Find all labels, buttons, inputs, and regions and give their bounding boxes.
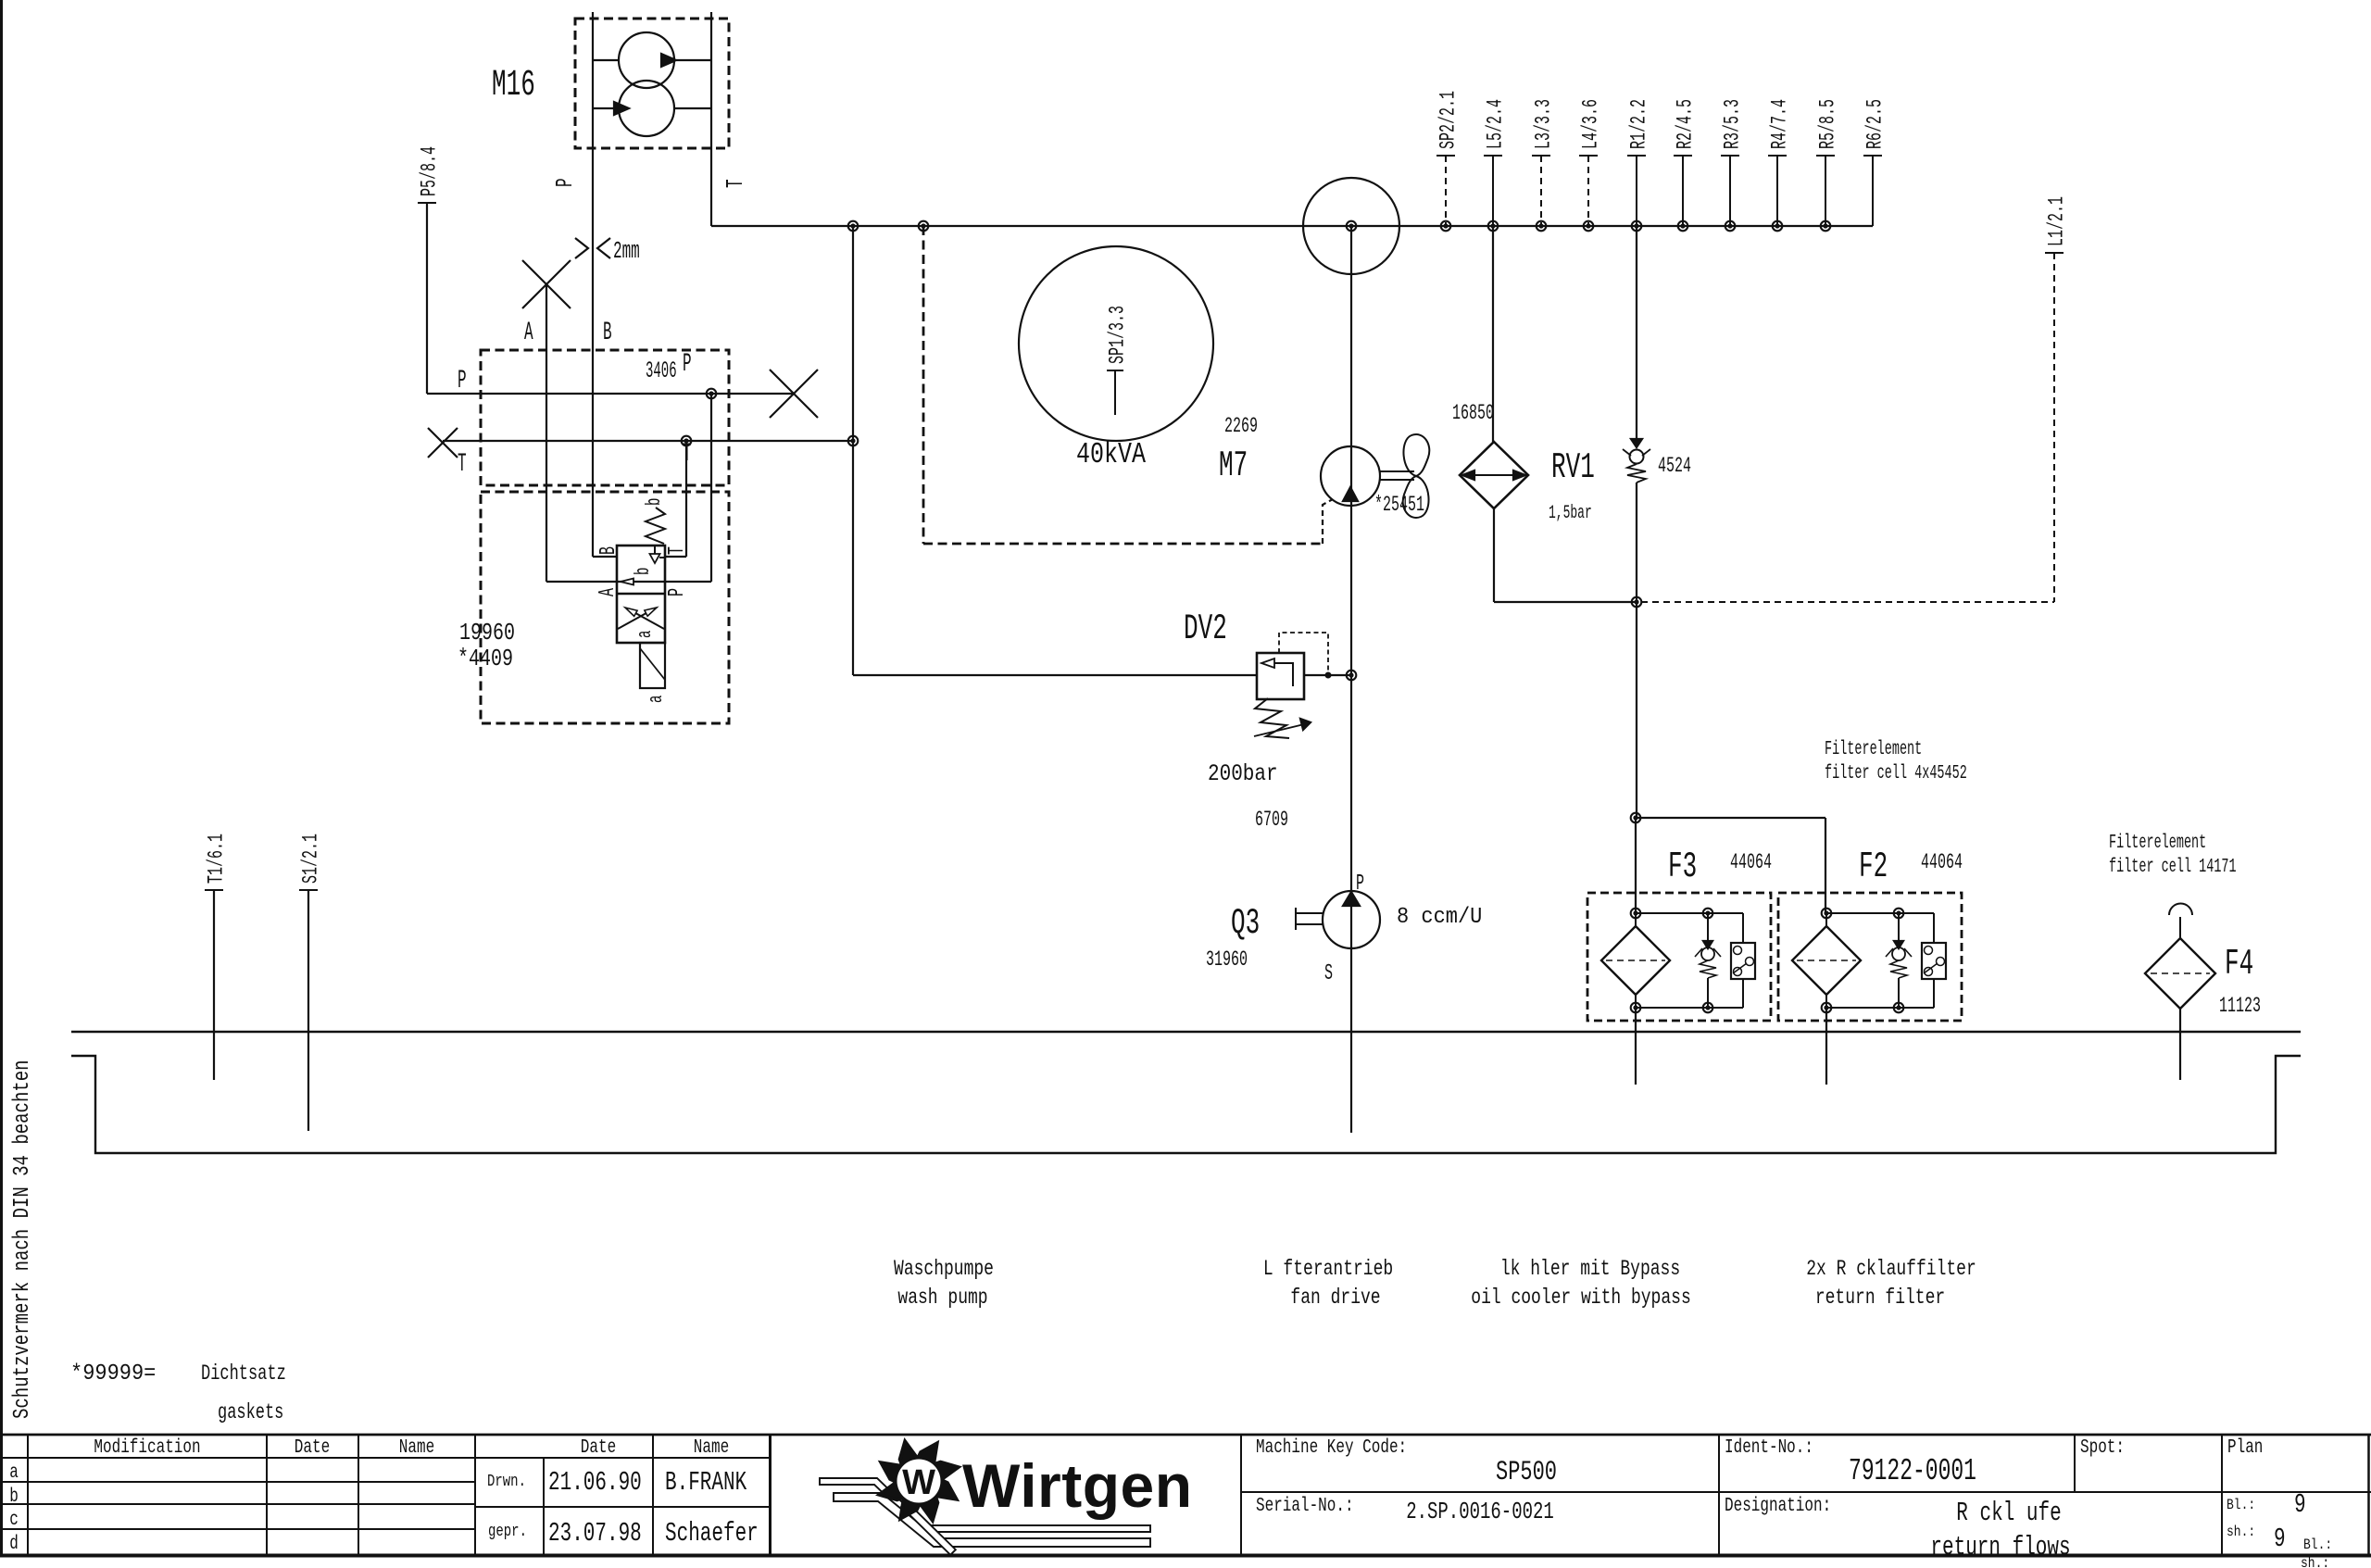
svg-text:T: T	[665, 546, 691, 555]
svg-text:b: b	[642, 498, 666, 506]
svg-text:B.FRANK: B.FRANK	[665, 1468, 746, 1498]
svg-text:c: c	[9, 1509, 19, 1531]
svg-text:M7: M7	[1219, 445, 1248, 486]
svg-text:Dichtsatz: Dichtsatz	[201, 1362, 286, 1386]
svg-text:a: a	[633, 631, 657, 638]
svg-text:31960: 31960	[1206, 947, 1248, 972]
svg-text:44064: 44064	[1921, 850, 1963, 874]
svg-text:2269: 2269	[1224, 414, 1258, 438]
svg-text:F3: F3	[1668, 846, 1697, 887]
svg-text:P: P	[458, 366, 467, 395]
svg-text:200bar: 200bar	[1208, 760, 1278, 786]
svg-text:R4/7.4: R4/7.4	[1767, 99, 1791, 149]
svg-text:T: T	[458, 449, 467, 479]
svg-text:a: a	[9, 1461, 19, 1484]
svg-text:Filterelement: Filterelement	[1825, 738, 1922, 760]
svg-text:sh.:: sh.:	[2301, 1556, 2329, 1568]
svg-text:Drwn.: Drwn.	[487, 1471, 526, 1490]
svg-text:Date: Date	[295, 1436, 330, 1459]
svg-text:R1/2.2: R1/2.2	[1626, 99, 1650, 149]
svg-text:79122-0001: 79122-0001	[1849, 1453, 1976, 1488]
svg-text:Name: Name	[399, 1436, 434, 1459]
svg-text:a: a	[644, 696, 668, 703]
svg-text:sh.:: sh.:	[2227, 1524, 2255, 1540]
svg-text:9: 9	[2274, 1524, 2286, 1554]
svg-text:21.06.90: 21.06.90	[548, 1468, 642, 1498]
svg-text:Designation:: Designation:	[1725, 1495, 1831, 1517]
svg-text:Serial-No.:: Serial-No.:	[1256, 1495, 1354, 1517]
svg-text:*25451: *25451	[1374, 493, 1424, 517]
svg-text:Filterelement: Filterelement	[2109, 832, 2206, 854]
svg-text:Date: Date	[581, 1436, 616, 1459]
svg-text:Schaefer: Schaefer	[665, 1519, 759, 1549]
svg-text:Waschpumpe: Waschpumpe	[894, 1258, 994, 1282]
svg-text:filter cell 4x45452: filter cell 4x45452	[1825, 762, 1967, 784]
svg-text:return filter: return filter	[1815, 1286, 1945, 1311]
svg-text:R2/4.5: R2/4.5	[1673, 99, 1697, 149]
svg-text:Machine Key Code:: Machine Key Code:	[1256, 1436, 1407, 1459]
svg-text:RV1: RV1	[1551, 446, 1595, 488]
svg-text:F2: F2	[1859, 846, 1888, 887]
svg-text:*4409: *4409	[458, 646, 513, 672]
svg-text:23.07.98: 23.07.98	[548, 1519, 642, 1549]
svg-text:Schutzvermerk nach DIN 34 beac: Schutzvermerk nach DIN 34 beachten	[10, 1060, 35, 1419]
svg-text:S1/2.1: S1/2.1	[298, 834, 322, 884]
svg-text:A: A	[596, 588, 621, 596]
svg-text:B: B	[603, 318, 612, 347]
svg-text:9: 9	[2294, 1490, 2306, 1520]
svg-text:1,5bar: 1,5bar	[1549, 504, 1592, 525]
svg-text:2x R cklauffilter: 2x R cklauffilter	[1806, 1258, 1976, 1282]
svg-text:2mm: 2mm	[613, 239, 640, 266]
svg-text:R6/2.5: R6/2.5	[1863, 99, 1887, 149]
svg-text:Q3: Q3	[1231, 902, 1260, 944]
svg-text:lk hler mit Bypass: lk hler mit Bypass	[1500, 1258, 1680, 1282]
svg-text:T1/6.1: T1/6.1	[204, 834, 228, 884]
svg-text:SP2/2.1: SP2/2.1	[1436, 91, 1460, 149]
svg-text:b: b	[9, 1486, 19, 1508]
svg-text:fan drive: fan drive	[1290, 1286, 1380, 1311]
svg-text:Modification: Modification	[94, 1436, 200, 1459]
svg-text:Spot:: Spot:	[2080, 1436, 2125, 1459]
svg-text:40kVA: 40kVA	[1076, 439, 1146, 471]
svg-text:L1/2.1: L1/2.1	[2044, 196, 2068, 246]
svg-text:6709: 6709	[1255, 808, 1288, 832]
svg-text:19960: 19960	[459, 620, 515, 646]
svg-text:R5/8.5: R5/8.5	[1815, 99, 1839, 149]
svg-text:Bl.:: Bl.:	[2227, 1498, 2255, 1513]
svg-text:L3/3.3: L3/3.3	[1531, 99, 1555, 149]
svg-text:16850: 16850	[1452, 401, 1494, 425]
svg-text:*99999=: *99999=	[70, 1361, 156, 1386]
svg-text:DV2: DV2	[1184, 608, 1227, 649]
svg-text:P: P	[665, 588, 691, 596]
svg-text:P: P	[553, 178, 580, 187]
svg-text:L5/2.4: L5/2.4	[1483, 99, 1507, 149]
svg-text:T: T	[723, 179, 750, 188]
svg-text:b: b	[631, 568, 655, 575]
svg-text:3406: 3406	[646, 358, 677, 384]
svg-text:wash pump: wash pump	[897, 1286, 987, 1311]
svg-text:L4/3.6: L4/3.6	[1578, 99, 1602, 149]
svg-text:Ident-No.:: Ident-No.:	[1725, 1436, 1813, 1459]
svg-text:P5/8.4: P5/8.4	[417, 146, 441, 196]
svg-text:W: W	[902, 1463, 935, 1502]
svg-text:S: S	[1324, 961, 1333, 987]
svg-text:gepr.: gepr.	[488, 1521, 527, 1540]
svg-text:SP1/3.3: SP1/3.3	[1105, 306, 1129, 364]
svg-text:Bl.:: Bl.:	[2303, 1537, 2332, 1553]
svg-text:11123: 11123	[2219, 994, 2261, 1018]
svg-text:M16: M16	[492, 65, 535, 107]
svg-text:Plan: Plan	[2227, 1436, 2263, 1459]
svg-text:filter cell 14171: filter cell 14171	[2109, 856, 2237, 878]
svg-text:8 ccm/U: 8 ccm/U	[1397, 904, 1482, 929]
svg-text:R ckl ufe: R ckl ufe	[1956, 1499, 2061, 1528]
svg-text:L fterantrieb: L fterantrieb	[1263, 1258, 1393, 1282]
svg-text:2.SP.0016-0021: 2.SP.0016-0021	[1406, 1498, 1554, 1525]
svg-text:F4: F4	[2225, 943, 2253, 985]
svg-text:Name: Name	[694, 1436, 729, 1459]
svg-text:T: T	[683, 439, 692, 469]
svg-text:P: P	[1356, 872, 1364, 897]
svg-text:B: B	[596, 546, 622, 555]
svg-text:P: P	[683, 349, 692, 379]
svg-text:Wirtgen: Wirtgen	[962, 1451, 1193, 1520]
svg-text:44064: 44064	[1730, 850, 1772, 874]
svg-text:R3/5.3: R3/5.3	[1720, 99, 1744, 149]
svg-text:4524: 4524	[1658, 454, 1691, 478]
svg-text:oil cooler with bypass: oil cooler with bypass	[1471, 1286, 1690, 1311]
svg-text:d: d	[9, 1533, 19, 1555]
svg-text:return flows: return flows	[1930, 1533, 2070, 1562]
svg-text:A: A	[524, 318, 533, 347]
svg-text:SP500: SP500	[1496, 1456, 1557, 1487]
svg-text:gaskets: gaskets	[218, 1401, 283, 1425]
